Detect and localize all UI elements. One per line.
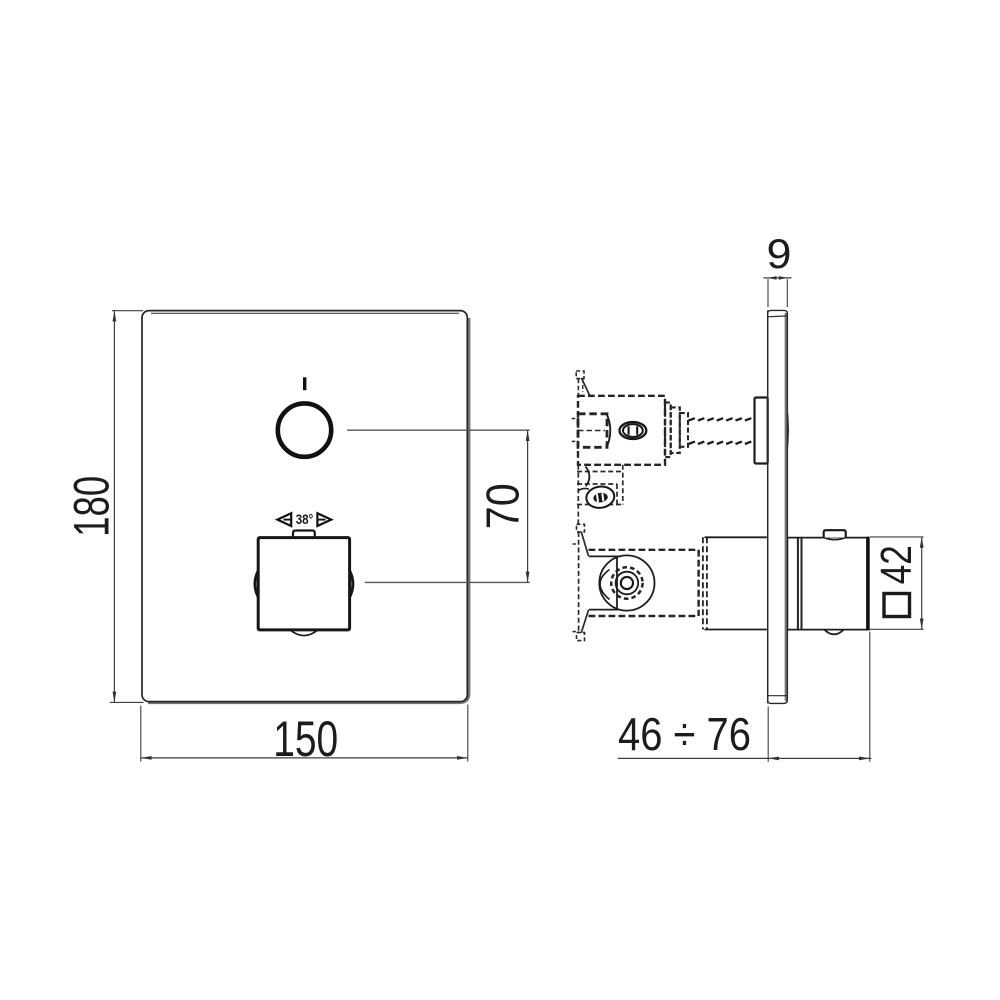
wall bracket lower	[573, 524, 589, 640]
38 deg left arrow	[277, 513, 291, 526]
cartridge housing dashed	[578, 396, 665, 465]
valve dashed circle	[611, 567, 642, 598]
handle bottom tab arc	[824, 630, 844, 635]
dim 150 line	[141, 757, 468, 759]
dim 180 line	[113, 311, 115, 703]
square knob right bump	[350, 571, 353, 598]
cartridge left ticks	[572, 418, 578, 420]
threaded stem bottom edge	[689, 442, 752, 444]
svg-text:150: 150	[273, 710, 338, 767]
handle neck double line	[797, 538, 799, 630]
mixer body dashed rect	[589, 550, 699, 616]
step rings dashed	[665, 403, 688, 458]
handle bottom edge	[788, 629, 869, 631]
leader from square knob	[365, 581, 530, 583]
svg-text:9: 9	[767, 230, 792, 277]
cartridge centerline	[578, 430, 605, 432]
handle right edge thick	[866, 537, 870, 631]
screw oval outer	[620, 422, 647, 439]
valve small circle	[621, 577, 633, 589]
handle left edge	[787, 538, 789, 630]
dim 46-76 line	[618, 757, 872, 759]
handle top edge	[788, 537, 869, 539]
screw head outer	[585, 485, 616, 510]
svg-text:42: 42	[873, 545, 921, 584]
cartridge inner dashed rect	[578, 414, 607, 448]
valve left arc	[600, 570, 610, 600]
dim 9 line	[764, 277, 792, 279]
knob circle	[278, 403, 331, 456]
flange on plate	[755, 398, 768, 464]
handle top tab	[824, 530, 846, 537]
dim 42 square symbol	[884, 594, 910, 617]
valve bracket face	[616, 558, 618, 609]
38 deg right arrow	[317, 513, 331, 526]
front plate top bevel line	[151, 312, 459, 314]
dim 9 extension lines	[767, 279, 769, 307]
side plate body	[785, 313, 788, 701]
svg-text:70: 70	[477, 483, 529, 529]
dim 70 line	[527, 430, 529, 582]
leader from knob circle	[347, 429, 530, 431]
clip solid hook	[586, 467, 590, 487]
dim 42 extension lines	[870, 536, 924, 538]
screw slot lines	[628, 426, 630, 434]
clip bottom small arc	[578, 488, 589, 490]
dim 180 extension ticks	[112, 310, 143, 312]
screw head inner dark	[593, 492, 609, 504]
square knob top tab	[293, 531, 315, 538]
side view: wall bracket upper	[576, 371, 589, 396]
svg-text:38°: 38°	[296, 512, 314, 527]
square knob bottom bump	[290, 630, 318, 636]
side plate bottom cap	[768, 695, 788, 697]
dim 46-76 extension lines	[767, 707, 769, 762]
sleeve solid top/bottom	[705, 536, 767, 538]
threaded stem top edge	[689, 418, 752, 420]
svg-text:46 ÷ 76: 46 ÷ 76	[618, 708, 751, 760]
lower clip assembly dashed	[577, 465, 623, 524]
side plate top cap	[768, 310, 788, 316]
cartridge solid arc	[607, 414, 611, 447]
front plate shadow right+bottom	[148, 318, 469, 703]
svg-text:180: 180	[62, 476, 119, 537]
valve mid circle	[616, 572, 639, 595]
sleeve dashed left edges	[702, 537, 704, 629]
front plate outline	[142, 311, 467, 702]
dim 150 extension lines	[140, 706, 142, 762]
square knob left bump	[255, 571, 258, 598]
knob silhouette arc on plate	[786, 403, 788, 457]
screw oval inner	[623, 424, 643, 437]
dim 42 line	[921, 537, 923, 629]
valve outer circle	[599, 555, 654, 610]
I mark	[303, 377, 306, 390]
square knob	[258, 538, 349, 630]
